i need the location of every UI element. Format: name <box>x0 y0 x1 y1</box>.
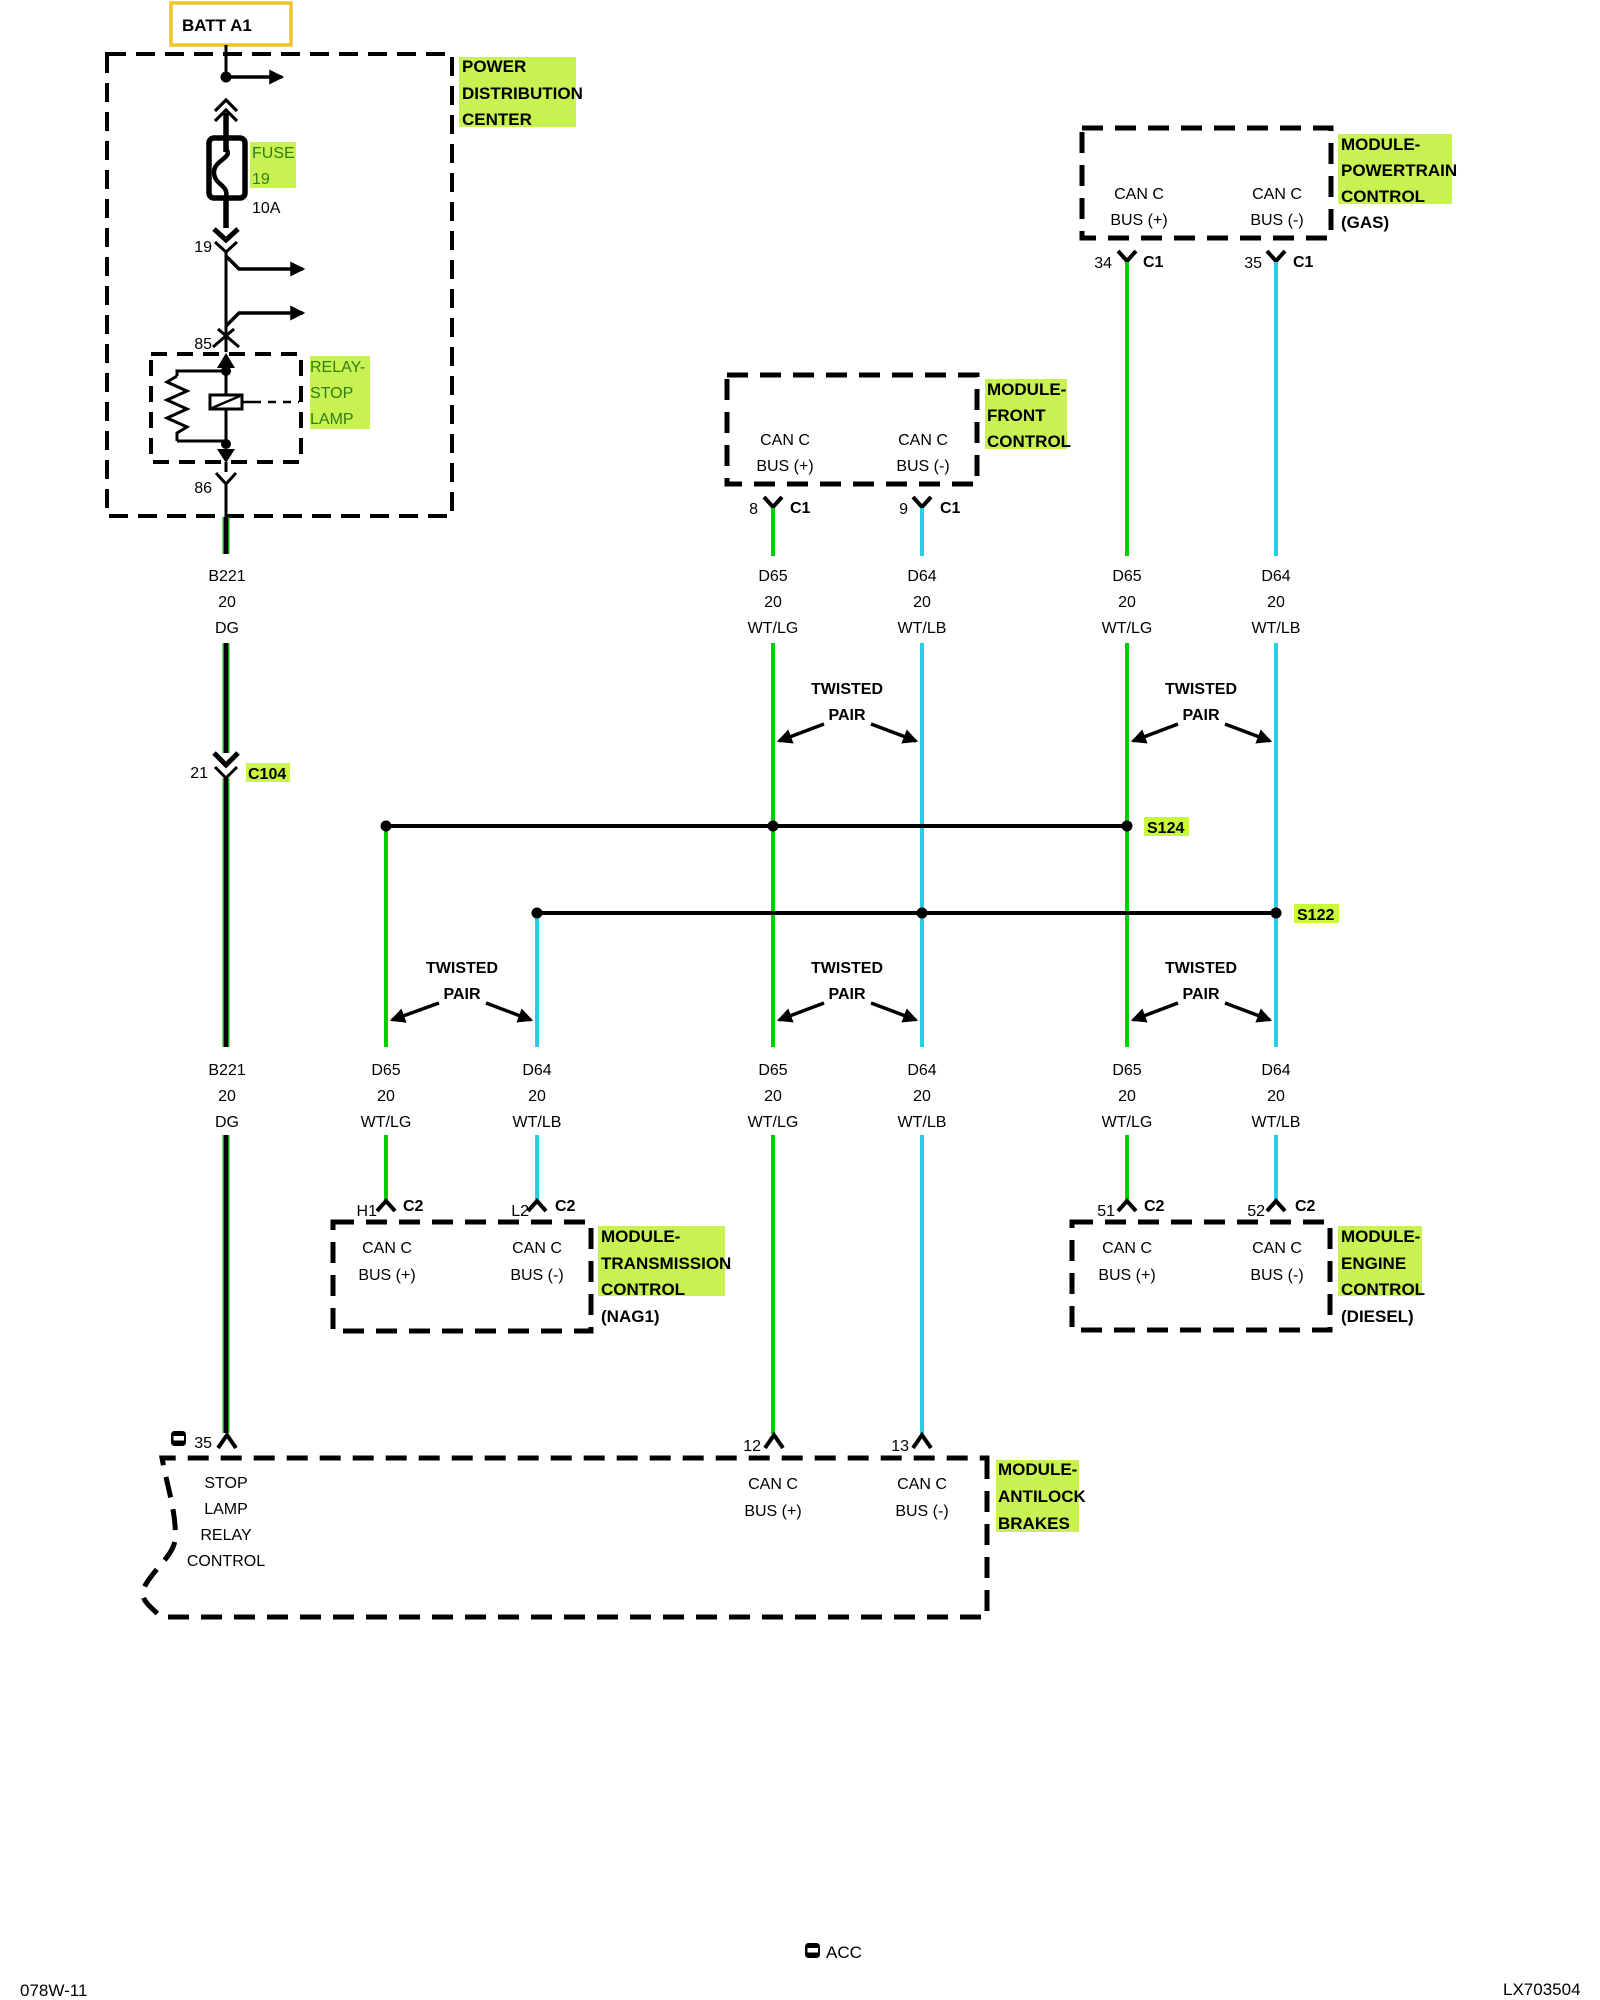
svg-text:WT/LB: WT/LB <box>1252 1114 1301 1131</box>
twisted pair label powertrain upper <box>1133 681 1270 741</box>
svg-text:C2: C2 <box>1295 1198 1316 1215</box>
wire D65 WT/LG powertrain segment 1 <box>1125 262 1129 556</box>
svg-text:TWISTED: TWISTED <box>426 960 498 977</box>
relay stop lamp label <box>310 356 370 429</box>
wire label B221 20 DG upper <box>208 568 245 637</box>
svg-text:C1: C1 <box>940 500 961 517</box>
svg-text:H1: H1 <box>357 1203 378 1220</box>
wire branch arrow 1 <box>226 256 303 269</box>
svg-text:35: 35 <box>1244 255 1262 272</box>
wire D64 WT/LB transmission segment 2 <box>535 1135 539 1200</box>
svg-text:PAIR: PAIR <box>1182 986 1219 1003</box>
relay internal wire <box>225 362 228 444</box>
svg-text:(DIESEL): (DIESEL) <box>1341 1307 1414 1326</box>
wire D65 WT/LG powertrain segment 3 <box>1125 1135 1129 1200</box>
svg-text:CAN C: CAN C <box>748 1476 798 1493</box>
svg-text:PAIR: PAIR <box>828 986 865 1003</box>
wire D64 WT/LB powertrain segment 1 <box>1274 262 1278 556</box>
wire label D65 powertrain lower <box>1102 1062 1153 1131</box>
svg-text:BUS (-): BUS (-) <box>510 1267 563 1284</box>
relay coil U85 <box>210 395 299 409</box>
relay top junction dot <box>221 366 231 376</box>
module antilock brakes box <box>143 1458 987 1617</box>
svg-text:PAIR: PAIR <box>1182 707 1219 724</box>
svg-text:19: 19 <box>194 239 212 256</box>
svg-text:TWISTED: TWISTED <box>1165 681 1237 698</box>
svg-text:D64: D64 <box>522 1062 551 1079</box>
module front control label <box>985 379 1071 451</box>
svg-text:51: 51 <box>1097 1203 1115 1220</box>
wire D65 WT/LG transmission segment 1 <box>384 826 388 1047</box>
svg-text:ANTILOCK: ANTILOCK <box>998 1487 1087 1506</box>
svg-text:ACC: ACC <box>826 1943 862 1962</box>
svg-text:WT/LG: WT/LG <box>1102 1114 1153 1131</box>
svg-text:BUS (-): BUS (-) <box>1250 212 1303 229</box>
arrowhead out of relay <box>217 449 235 463</box>
svg-text:D65: D65 <box>371 1062 400 1079</box>
wire B221 20 DG segment 3 <box>223 778 230 1047</box>
wire D65 WT/LG front segment 3 <box>771 1135 775 1434</box>
svg-text:10A: 10A <box>252 200 281 217</box>
svg-text:20: 20 <box>218 594 236 611</box>
wire from BATT A1 down <box>225 45 228 77</box>
relay stop lamp box <box>151 354 301 462</box>
wire label D64 front upper <box>898 568 947 637</box>
wire D64 WT/LB transmission segment 1 <box>535 913 539 1047</box>
wire pin19 to pin85 <box>225 250 228 352</box>
wire label D65 powertrain upper <box>1102 568 1153 637</box>
stop lamp relay control pin label <box>187 1475 265 1570</box>
svg-text:WT/LB: WT/LB <box>898 1114 947 1131</box>
svg-text:CENTER: CENTER <box>462 110 532 129</box>
svg-text:D65: D65 <box>758 568 787 585</box>
svg-text:WT/LB: WT/LB <box>898 620 947 637</box>
pin 13 fork <box>913 1435 931 1448</box>
svg-text:BUS (+): BUS (+) <box>744 1503 801 1520</box>
svg-text:D65: D65 <box>758 1062 787 1079</box>
pin L2 C2 fork <box>528 1201 546 1211</box>
svg-text:WT/LG: WT/LG <box>361 1114 412 1131</box>
svg-text:DISTRIBUTION: DISTRIBUTION <box>462 84 583 103</box>
splice S124 junction dots <box>381 821 392 832</box>
svg-text:C1: C1 <box>1143 254 1164 271</box>
splice S122 label <box>1294 904 1339 924</box>
wire label D65 front upper <box>748 568 799 637</box>
svg-text:WT/LG: WT/LG <box>748 620 799 637</box>
pin 8 C1 fork <box>764 497 782 507</box>
svg-text:MODULE-: MODULE- <box>1341 1227 1420 1246</box>
svg-text:C104: C104 <box>248 766 286 783</box>
wire below fuse <box>223 198 229 228</box>
twisted pair label front upper <box>779 681 916 741</box>
svg-text:RELAY-: RELAY- <box>310 359 365 376</box>
svg-text:B221: B221 <box>208 568 245 585</box>
wire label D65 transmission <box>361 1062 412 1131</box>
svg-text:LX703504: LX703504 <box>1503 1980 1581 1999</box>
svg-text:BUS (+): BUS (+) <box>1098 1267 1155 1284</box>
module front control box <box>727 375 977 484</box>
splice S124 bus line <box>386 824 1127 828</box>
wire into fuse <box>223 113 229 142</box>
svg-text:LAMP: LAMP <box>204 1501 248 1518</box>
svg-text:POWER: POWER <box>462 57 526 76</box>
svg-text:S122: S122 <box>1297 907 1334 924</box>
svg-text:20: 20 <box>218 1088 236 1105</box>
svg-text:D64: D64 <box>1261 568 1290 585</box>
pin 52 C2 fork <box>1267 1201 1285 1211</box>
svg-text:BUS (+): BUS (+) <box>358 1267 415 1284</box>
svg-text:(NAG1): (NAG1) <box>601 1307 660 1326</box>
fuse label FUSE 19 <box>250 142 296 217</box>
svg-text:(GAS): (GAS) <box>1341 213 1389 232</box>
svg-text:WT/LG: WT/LG <box>748 1114 799 1131</box>
svg-text:CAN C: CAN C <box>1114 186 1164 203</box>
svg-text:35: 35 <box>194 1435 212 1452</box>
node junction at battery feed <box>221 72 232 83</box>
splice S122 junction dots <box>532 908 543 919</box>
wire branch arrow right <box>226 75 282 79</box>
module engine control box <box>1072 1222 1330 1330</box>
svg-text:D64: D64 <box>907 1062 936 1079</box>
svg-text:34: 34 <box>1094 255 1112 272</box>
svg-text:D64: D64 <box>1261 1062 1290 1079</box>
svg-text:MODULE-: MODULE- <box>987 380 1066 399</box>
svg-text:MODULE-: MODULE- <box>1341 135 1420 154</box>
svg-text:TWISTED: TWISTED <box>811 960 883 977</box>
wire label D64 front lower <box>898 1062 947 1131</box>
svg-text:CAN C: CAN C <box>1102 1240 1152 1257</box>
pin 9 C1 fork <box>913 497 931 507</box>
connector C104 chevrons pin 21 <box>214 753 238 778</box>
svg-text:D65: D65 <box>1112 1062 1141 1079</box>
wire D65 WT/LG powertrain segment 2 <box>1125 643 1129 1047</box>
wire D64 WT/LB powertrain segment 3 <box>1274 1135 1278 1200</box>
svg-text:BUS (-): BUS (-) <box>896 458 949 475</box>
svg-text:WT/LG: WT/LG <box>1102 620 1153 637</box>
svg-text:CAN C: CAN C <box>897 1476 947 1493</box>
relay coil resistor branch <box>167 371 226 441</box>
svg-text:FRONT: FRONT <box>987 406 1046 425</box>
svg-text:L2: L2 <box>511 1203 529 1220</box>
svg-text:LAMP: LAMP <box>310 411 354 428</box>
svg-text:20: 20 <box>913 594 931 611</box>
svg-text:WT/LB: WT/LB <box>513 1114 562 1131</box>
svg-text:19: 19 <box>252 171 270 188</box>
module transmission control pin labels <box>358 1240 563 1284</box>
battery feed box BATT A1 <box>171 3 291 45</box>
svg-text:20: 20 <box>377 1088 395 1105</box>
wire label D64 powertrain lower <box>1252 1062 1301 1131</box>
pin 12 fork <box>765 1435 783 1448</box>
wire label B221 20 DG lower <box>208 1062 245 1131</box>
svg-text:12: 12 <box>743 1438 761 1455</box>
module transmission control label <box>598 1226 731 1326</box>
svg-text:PAIR: PAIR <box>828 707 865 724</box>
svg-text:TWISTED: TWISTED <box>1165 960 1237 977</box>
twisted pair label transmission <box>392 960 531 1020</box>
relay bottom junction dot <box>221 439 231 449</box>
twisted pair label front lower <box>779 960 916 1020</box>
wire D65 WT/LG front segment 1 <box>771 508 775 556</box>
hot at all times icon at pin 35 <box>171 1431 186 1446</box>
svg-text:86: 86 <box>194 480 212 497</box>
wire B221 20 DG segment 2 <box>223 643 230 753</box>
svg-text:C1: C1 <box>1293 254 1314 271</box>
power distribution center label <box>459 57 583 129</box>
module engine control label <box>1338 1226 1425 1326</box>
svg-text:20: 20 <box>913 1088 931 1105</box>
module powertrain control label <box>1338 134 1457 232</box>
pin 19 connector chevrons <box>194 229 238 256</box>
wire branch arrow 2 <box>226 313 303 326</box>
svg-text:20: 20 <box>528 1088 546 1105</box>
svg-text:BUS (-): BUS (-) <box>895 1503 948 1520</box>
pin H1 C2 fork <box>377 1201 395 1211</box>
wire D64 WT/LB front segment 1 <box>920 508 924 556</box>
svg-text:85: 85 <box>194 336 212 353</box>
svg-text:CAN C: CAN C <box>898 432 948 449</box>
svg-text:BATT A1: BATT A1 <box>182 16 252 35</box>
svg-text:20: 20 <box>764 594 782 611</box>
splice S122 bus line <box>537 911 1276 915</box>
svg-text:20: 20 <box>1267 1088 1285 1105</box>
svg-text:20: 20 <box>1118 1088 1136 1105</box>
pin 35 C1 fork <box>1267 251 1285 261</box>
svg-text:13: 13 <box>891 1438 909 1455</box>
connector C104 label <box>246 763 290 783</box>
svg-text:S124: S124 <box>1147 820 1184 837</box>
svg-text:MODULE-: MODULE- <box>601 1227 680 1246</box>
svg-text:TWISTED: TWISTED <box>811 681 883 698</box>
wire label D65 front lower <box>748 1062 799 1131</box>
wire B221 20 DG segment 4 <box>223 1135 230 1433</box>
svg-text:WT/LB: WT/LB <box>1252 620 1301 637</box>
svg-text:CONTROL: CONTROL <box>601 1280 685 1299</box>
ACC legend icon <box>805 1943 820 1958</box>
svg-text:PAIR: PAIR <box>443 986 480 1003</box>
wire D65 WT/LG front segment 2 <box>771 643 775 1047</box>
svg-text:MODULE-: MODULE- <box>998 1460 1077 1479</box>
pin 51 C2 fork <box>1118 1201 1136 1211</box>
svg-text:BUS (-): BUS (-) <box>1250 1267 1303 1284</box>
svg-text:CAN C: CAN C <box>1252 1240 1302 1257</box>
pin 35 fork <box>218 1435 236 1448</box>
svg-text:CAN C: CAN C <box>1252 186 1302 203</box>
module transmission control box <box>333 1222 591 1331</box>
wire pin86 to PDC edge <box>225 462 228 472</box>
svg-text:CONTROL: CONTROL <box>187 1553 265 1570</box>
power distribution center box <box>107 54 452 516</box>
svg-text:CONTROL: CONTROL <box>1341 1280 1425 1299</box>
svg-text:D65: D65 <box>1112 568 1141 585</box>
svg-text:20: 20 <box>1118 594 1136 611</box>
svg-text:FUSE: FUSE <box>252 145 295 162</box>
module powertrain control pin labels <box>1110 186 1303 229</box>
module engine control pin labels <box>1098 1240 1303 1284</box>
twisted pair label powertrain lower <box>1133 960 1270 1020</box>
module front control pin labels <box>756 432 949 475</box>
splice S124 label <box>1144 817 1189 837</box>
svg-text:CAN C: CAN C <box>512 1240 562 1257</box>
wire B221 20 DG segment 1 <box>223 517 230 554</box>
svg-text:DG: DG <box>215 1114 239 1131</box>
svg-text:D64: D64 <box>907 568 936 585</box>
svg-text:20: 20 <box>1267 594 1285 611</box>
svg-text:BRAKES: BRAKES <box>998 1514 1070 1533</box>
svg-text:RELAY: RELAY <box>200 1527 252 1544</box>
pin 85 connector fork <box>213 329 239 347</box>
svg-text:CAN C: CAN C <box>760 432 810 449</box>
svg-text:C2: C2 <box>403 1198 424 1215</box>
svg-text:C1: C1 <box>790 500 811 517</box>
svg-text:078W-11: 078W-11 <box>20 1981 87 2000</box>
svg-text:21: 21 <box>190 765 208 782</box>
svg-text:CAN C: CAN C <box>362 1240 412 1257</box>
fuse 19 10A <box>209 138 245 198</box>
wire label D64 transmission <box>513 1062 562 1131</box>
wire D64 WT/LB powertrain segment 2 <box>1274 643 1278 1047</box>
svg-text:9: 9 <box>899 501 908 518</box>
svg-text:ENGINE: ENGINE <box>1341 1254 1406 1273</box>
svg-text:STOP: STOP <box>204 1475 247 1492</box>
wire D64 WT/LB front segment 2 <box>920 643 924 1047</box>
svg-text:CONTROL: CONTROL <box>1341 187 1425 206</box>
arrowhead into relay <box>217 353 235 368</box>
svg-text:C2: C2 <box>1144 1198 1165 1215</box>
svg-text:DG: DG <box>215 620 239 637</box>
svg-text:BUS (+): BUS (+) <box>1110 212 1167 229</box>
svg-text:20: 20 <box>764 1088 782 1105</box>
pin 34 C1 fork <box>1118 251 1136 261</box>
svg-text:POWERTRAIN: POWERTRAIN <box>1341 161 1457 180</box>
svg-text:BUS (+): BUS (+) <box>756 458 813 475</box>
svg-text:8: 8 <box>749 501 758 518</box>
wire D65 WT/LG transmission segment 2 <box>384 1135 388 1200</box>
svg-text:TRANSMISSION: TRANSMISSION <box>601 1254 731 1273</box>
wire label D64 powertrain upper <box>1252 568 1301 637</box>
svg-text:CONTROL: CONTROL <box>987 432 1071 451</box>
module antilock brakes label <box>996 1460 1087 1533</box>
svg-text:B221: B221 <box>208 1062 245 1079</box>
svg-text:52: 52 <box>1247 1203 1265 1220</box>
svg-text:C2: C2 <box>555 1198 576 1215</box>
pin 86 connector fork <box>216 473 236 484</box>
svg-text:STOP: STOP <box>310 385 353 402</box>
module powertrain control box <box>1082 128 1331 238</box>
wire D64 WT/LB front segment 3 <box>920 1135 924 1434</box>
antilock CAN pin labels <box>744 1476 948 1520</box>
connector chevrons above fuse <box>215 100 237 121</box>
